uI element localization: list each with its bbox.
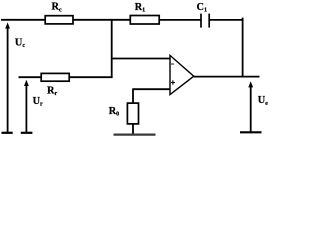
- op-amp plus sign: [171, 82, 175, 84]
- resistor Rc: [45, 16, 73, 24]
- wire Rc to R1: [72, 19, 130, 21]
- op-amp minus sign: [171, 63, 174, 65]
- arrow Ue output: [250, 85, 252, 133]
- wire non-inverting input: [133, 88, 170, 90]
- op-amp U1 triangle: [170, 55, 194, 94]
- wire inverting input: [112, 58, 170, 60]
- wire R0 to ground: [132, 124, 134, 134]
- resistor R1: [130, 16, 159, 25]
- terminal bar right: [240, 131, 262, 133]
- terminal bar left1: [2, 132, 13, 134]
- arrow Uc: [7, 26, 9, 133]
- wire feedback vertical right: [242, 18, 244, 77]
- terminal bar left2: [21, 132, 33, 134]
- wire output: [194, 76, 260, 78]
- resistor Rr: [41, 73, 69, 81]
- ground bar: [114, 134, 156, 136]
- node A vertical line: [111, 20, 113, 77]
- wire C1 to top-right corner: [209, 19, 243, 21]
- resistor R0: [127, 103, 138, 124]
- wire Rr to node: [69, 76, 112, 78]
- arrow Ur: [25, 83, 27, 133]
- wire drop to R0: [132, 88, 134, 103]
- wire R1 to C1: [159, 19, 201, 21]
- wire top from left edge to Rc: [1, 19, 46, 21]
- capacitor C1 plate right: [208, 14, 210, 28]
- capacitor C1 plate left: [200, 14, 202, 28]
- wire lower-left to Rr: [19, 76, 42, 78]
